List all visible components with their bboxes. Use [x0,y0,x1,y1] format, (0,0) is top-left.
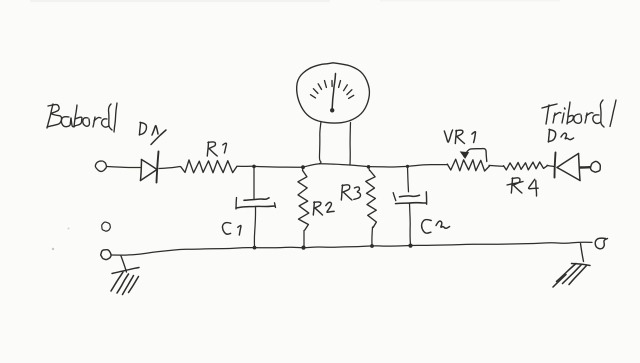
wire: C2 to ground rail [410,204,411,246]
node E [253,246,257,250]
node D [406,165,409,168]
resistor R2 [298,167,309,247]
wire: left terminal to D1 [107,167,140,168]
terminal ground left [101,250,111,260]
wire: node D to C2 [408,166,409,191]
potentiometer VR1 [447,149,489,171]
wire: VR1 to R4 [489,164,503,167]
wire: R4 to D2 [547,165,554,166]
label C2 [422,220,450,234]
label R1 [207,142,226,156]
wire: node A to node B [254,165,303,168]
meter M1 [297,63,370,123]
resistor R3 [366,167,377,246]
label D1 [139,122,166,144]
wire: node D to VR1 [408,165,448,167]
capacitor C1 [236,198,276,210]
node A [252,165,256,169]
wire: node C to node D [369,165,408,168]
capacitor C2 [393,192,426,204]
node H [408,244,412,248]
label Tribord [542,100,616,127]
terminal ground right [595,238,607,249]
diode D2 [555,153,581,181]
label R4 [507,178,538,196]
ground rail wire [112,242,593,255]
label VR1 [444,130,475,144]
wire: meter right lead [349,123,352,166]
wire: D2 to right terminal [580,166,590,169]
wire: rail to node C [350,165,369,167]
resistor R4 [504,162,548,170]
wire: rail under meter [320,164,351,165]
wire: meter left lead [319,122,321,164]
wire: node B to meter left lead [303,164,320,167]
label R3 [341,185,360,200]
node B [301,165,305,169]
ground symbol right [553,244,590,288]
wire: node A to C1 [253,166,255,199]
wire: R1 to node A [237,165,254,167]
label D2 [548,129,573,142]
ground symbol left [111,256,139,295]
wire: D1 to R1 [159,167,180,169]
terminal Babord input [95,161,106,171]
label Babord [47,103,117,132]
diode D1 [141,152,159,183]
node F [301,246,305,250]
label R2 [313,202,334,215]
label C1 [222,223,241,235]
unused terminal left [102,222,111,231]
resistor R1 [181,160,237,173]
terminal Tribord input [590,161,600,172]
wire: C1 to ground rail [254,207,255,248]
node G [370,244,374,248]
node C [367,165,371,169]
